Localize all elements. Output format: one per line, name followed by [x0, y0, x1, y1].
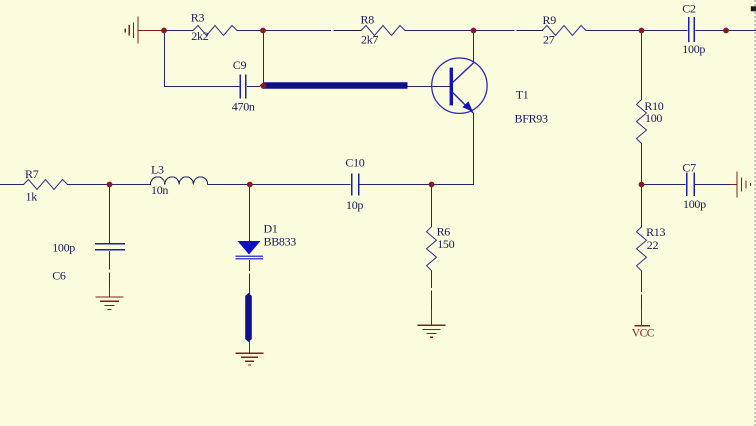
- svg-text:C6: C6: [52, 269, 66, 283]
- resistor R13: [637, 225, 666, 271]
- svg-text:BFR93: BFR93: [515, 112, 548, 126]
- wire D1 cathode to stub bar lower segment: [249, 274, 251, 295]
- power port VCC: [632, 309, 655, 340]
- wire R13 to VCC lower segment: [641, 295, 643, 310]
- wire node A to R3: [164, 30, 194, 32]
- wire R6 to ground: [431, 270, 433, 288]
- svg-text:R9: R9: [543, 13, 557, 27]
- wire R7 to node E: [67, 184, 110, 186]
- wire stripline to T1 base: [408, 86, 450, 88]
- wire node B to R8: [263, 30, 331, 32]
- resistor R6: [427, 225, 455, 271]
- svg-text:C9: C9: [233, 58, 247, 72]
- wire node C to C2: [642, 30, 688, 32]
- stripline thick bus bar: [260, 82, 408, 88]
- wire R8 left pin lead: [334, 30, 362, 32]
- junction output node: [723, 28, 729, 34]
- junction on stripline: [261, 83, 267, 89]
- resistor R8: [361, 13, 406, 47]
- sheet border right edge: [754, 0, 756, 426]
- diode D1 BB833 varactor: [236, 222, 297, 259]
- thick stub bar below D1: [245, 293, 252, 342]
- svg-text:22: 22: [647, 238, 659, 252]
- resistor R9: [542, 13, 586, 46]
- capacitor C6: [52, 241, 125, 283]
- wire R3 to node B: [237, 30, 264, 32]
- capacitor C10: [345, 156, 364, 212]
- wire C2 to output: [695, 30, 756, 32]
- ground (below D1): [236, 344, 264, 365]
- inductor L3: [151, 163, 208, 198]
- svg-text:470n: 470n: [232, 100, 255, 114]
- wire stub bar to ground: [249, 341, 251, 345]
- junction node A: [161, 28, 167, 34]
- wire R10 to node D: [641, 143, 643, 185]
- wire node D to C7: [642, 184, 686, 186]
- capacitor C7: [682, 161, 706, 212]
- ground (below R6): [417, 309, 445, 337]
- wire node A down to C9: [165, 31, 241, 87]
- wire L3 to node F: [208, 184, 250, 186]
- wire C7 to right ground: [695, 184, 731, 186]
- svg-text:100p: 100p: [52, 241, 75, 255]
- capacitor C9: [232, 58, 255, 113]
- svg-text:2k2: 2k2: [191, 29, 208, 43]
- svg-text:L3: L3: [151, 163, 164, 177]
- wire D1 to stub bar: [249, 260, 251, 271]
- wire node B down to stripline: [263, 31, 265, 84]
- svg-text:10n: 10n: [151, 183, 168, 197]
- svg-text:T1: T1: [516, 88, 529, 102]
- wire left input to R7: [0, 184, 24, 186]
- junction node C: [639, 28, 645, 34]
- svg-text:R7: R7: [25, 167, 39, 181]
- wire R8 to collector node: [405, 30, 474, 32]
- svg-text:150: 150: [437, 237, 454, 251]
- wire R6 to ground lower segment: [431, 291, 433, 311]
- wire C6 to ground lower segment: [109, 273, 111, 289]
- svg-text:D1: D1: [264, 222, 278, 236]
- wire C6 to ground: [109, 251, 111, 270]
- wire node F to C10: [250, 184, 351, 186]
- ground (below C6): [96, 287, 124, 310]
- svg-text:100p: 100p: [683, 197, 706, 211]
- svg-text:R8: R8: [361, 13, 375, 27]
- svg-text:10p: 10p: [346, 198, 363, 212]
- junction node G: [429, 182, 435, 188]
- wire R9 left pin lead: [516, 30, 543, 32]
- svg-text:R3: R3: [191, 11, 205, 25]
- capacitor C2: [682, 2, 705, 57]
- wire node G down to R6: [431, 185, 433, 228]
- svg-text:100p: 100p: [682, 42, 705, 56]
- junction collector node: [471, 28, 477, 34]
- wire node E down to C6: [109, 185, 111, 244]
- wire C9 to stripline: [247, 86, 260, 88]
- svg-text:C2: C2: [682, 2, 696, 16]
- svg-text:27: 27: [543, 32, 555, 46]
- wire collector node to R9: [474, 30, 515, 32]
- svg-text:VCC: VCC: [632, 328, 655, 340]
- junction node F: [247, 182, 253, 188]
- resistor R7: [24, 167, 68, 203]
- wire node D to R13: [641, 185, 643, 228]
- wire R13 to VCC: [641, 270, 643, 292]
- svg-text:BB833: BB833: [264, 235, 297, 249]
- resistor R3: [191, 11, 237, 44]
- svg-text:2k7: 2k7: [361, 33, 378, 47]
- wire C10 to node G: [360, 184, 432, 186]
- svg-text:C7: C7: [682, 161, 696, 175]
- ground (top-left, rotated, bars facing left): [125, 17, 164, 44]
- wire R9 to node C: [586, 30, 642, 32]
- junction node E: [107, 182, 113, 188]
- wire node E to L3: [110, 184, 152, 186]
- wire node C down to R10: [641, 31, 643, 101]
- wire emitter down to node G rail: [473, 112, 475, 184]
- junction node D: [639, 182, 645, 188]
- wire collector to top rail: [473, 31, 475, 63]
- svg-text:1k: 1k: [26, 190, 38, 204]
- wire node F down to D1: [249, 185, 251, 242]
- resistor R10: [637, 99, 664, 144]
- svg-text:C10: C10: [345, 156, 364, 170]
- svg-text:100: 100: [645, 111, 662, 125]
- junction node B: [260, 28, 266, 34]
- ground (right of C7, rotated, bars facing right): [730, 172, 751, 198]
- wire node G to emitter rail: [432, 184, 475, 186]
- transistor T1 BFR93: [432, 58, 548, 126]
